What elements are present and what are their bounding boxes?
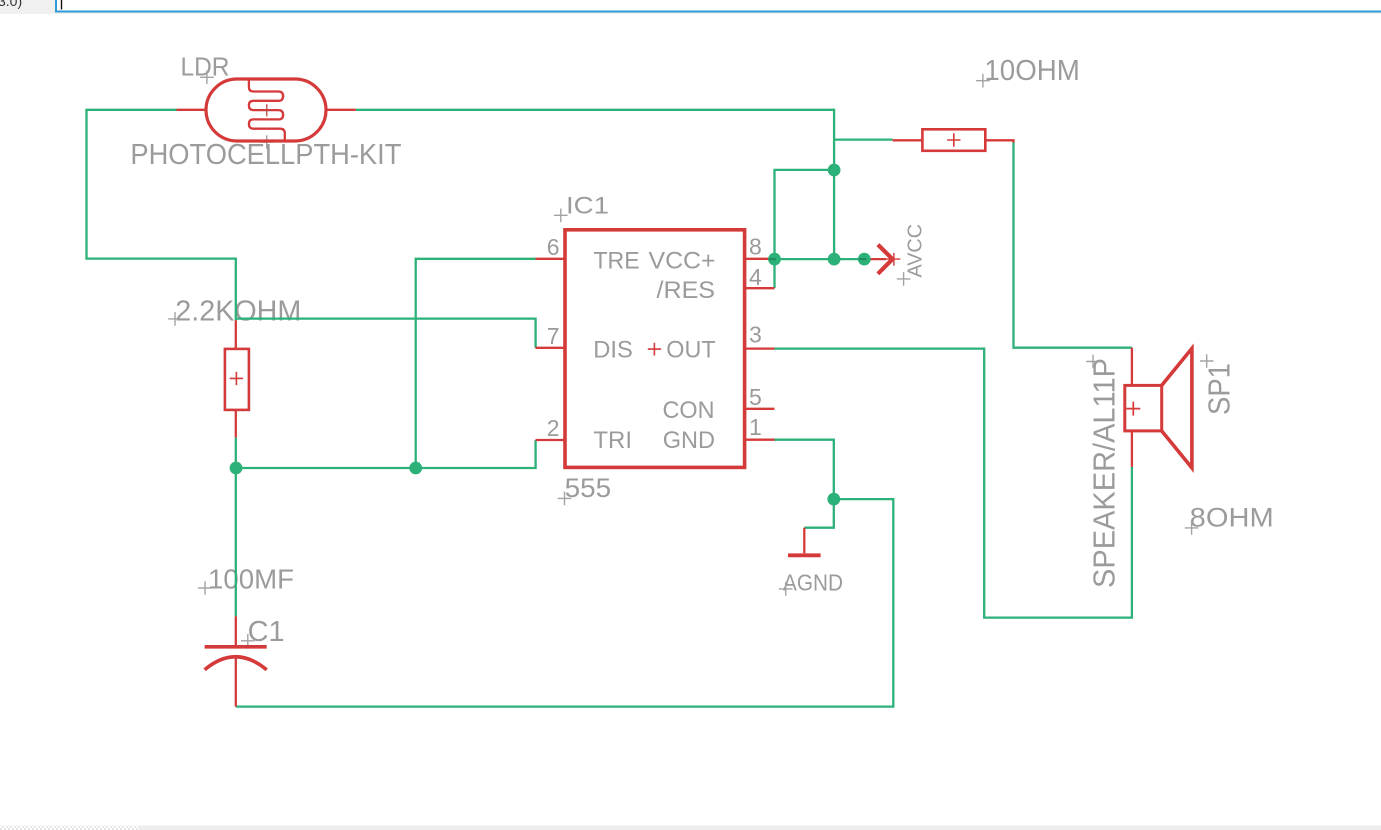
- svg-text:10OHM: 10OHM: [984, 55, 1080, 87]
- svg-text:GND: GND: [663, 427, 715, 454]
- svg-text:2: 2: [547, 415, 560, 441]
- svg-text:2.2KOHM: 2.2KOHM: [175, 295, 301, 327]
- svg-text:SP1: SP1: [1201, 363, 1236, 415]
- svg-text:DIS: DIS: [593, 336, 633, 363]
- svg-text:TRI: TRI: [593, 427, 632, 454]
- svg-text:1: 1: [749, 414, 762, 440]
- svg-text:100MF: 100MF: [208, 563, 294, 594]
- svg-text:8: 8: [749, 234, 762, 260]
- svg-text:/RES: /RES: [657, 277, 716, 304]
- svg-text:SPEAKER/AL11P: SPEAKER/AL11P: [1087, 358, 1122, 588]
- svg-text:C1: C1: [248, 616, 285, 648]
- svg-text:6: 6: [547, 234, 560, 260]
- svg-text:VCC+: VCC+: [649, 248, 716, 275]
- svg-text:CON: CON: [663, 397, 715, 424]
- svg-text:AVCC: AVCC: [905, 224, 927, 278]
- svg-text:3.0): 3.0): [0, 0, 22, 9]
- svg-text:555: 555: [565, 473, 612, 503]
- svg-text:AGND: AGND: [783, 569, 843, 595]
- svg-text:IC1: IC1: [566, 192, 609, 219]
- svg-text:7: 7: [547, 323, 560, 349]
- svg-text:OUT: OUT: [666, 336, 716, 363]
- svg-text:TRE: TRE: [593, 248, 639, 275]
- svg-text:8OHM: 8OHM: [1190, 502, 1274, 532]
- svg-text:4: 4: [749, 264, 762, 290]
- svg-text:5: 5: [749, 384, 762, 410]
- svg-text:3: 3: [749, 322, 762, 348]
